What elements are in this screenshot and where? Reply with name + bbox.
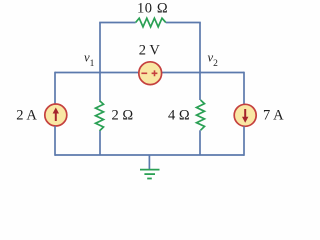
resistor R 2ohm zigzag (96, 101, 104, 131)
svg-text:v1: v1 (84, 51, 95, 69)
wire main horizontal right segment (162, 72, 244, 74)
current source I2 down arrow (244, 109, 246, 119)
current source I2 7A circle (234, 104, 256, 126)
svg-text:2 A: 2 A (16, 108, 37, 124)
current source I1 2A circle (45, 104, 67, 126)
wire bottom horizontal (55, 154, 244, 156)
wire middle branch upper (v1 to 2ohm) (99, 73, 101, 101)
wire top left horizontal (99, 22, 135, 24)
current source I1 up arrow (55, 111, 57, 121)
svg-text:v2: v2 (208, 51, 219, 69)
wire v2 branch lower (199, 130, 201, 155)
voltage source plus sign (152, 70, 158, 76)
wire middle branch lower (99, 131, 101, 155)
svg-text:4 Ω: 4 Ω (168, 108, 190, 124)
svg-text:2 Ω: 2 Ω (112, 108, 134, 124)
voltage source V1 2V circle (139, 62, 162, 85)
wire right branch upper (243, 72, 245, 105)
wire top loop left vertical (node v1 up) (99, 23, 101, 73)
wire left branch lower (54, 126, 56, 156)
wire main horizontal left segment (55, 72, 139, 74)
svg-text:7 A: 7 A (263, 108, 284, 124)
ground bar 2 (144, 173, 155, 175)
resistor R 10ohm zigzag (136, 18, 166, 27)
svg-text:10 Ω: 10 Ω (137, 1, 168, 17)
svg-text:2 V: 2 V (139, 43, 161, 59)
wire left branch upper (54, 72, 56, 104)
wire top loop right vertical (down to node v2) (199, 23, 201, 73)
ground stem (148, 155, 150, 170)
wire v2 branch upper (v2 to 4ohm) (199, 73, 201, 101)
ground bar 3 (147, 178, 152, 180)
ground bar 1 (140, 169, 160, 171)
wire top right horizontal (166, 22, 201, 24)
resistor R 4ohm zigzag (197, 100, 205, 130)
wire right branch lower (243, 126, 245, 156)
voltage source minus sign (141, 72, 147, 74)
